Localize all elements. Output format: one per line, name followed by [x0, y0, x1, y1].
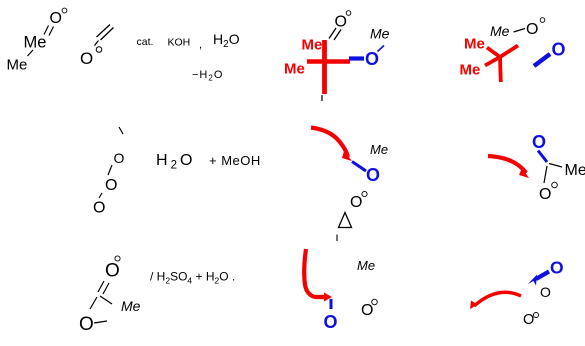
red bond horizontal	[307, 59, 350, 64]
wire bond left	[90, 297, 97, 309]
tick below	[336, 235, 338, 242]
svg-text:,: ,	[199, 39, 202, 51]
red bond Me2 to C	[485, 57, 500, 66]
charge circle	[96, 47, 102, 53]
charge circle on O	[62, 8, 67, 13]
wire bond Me-Me	[28, 50, 34, 56]
svg-text:O: O	[552, 40, 566, 60]
svg-text:O: O	[79, 314, 94, 335]
svg-text:Me: Me	[284, 61, 305, 78]
svg-text:Me: Me	[464, 36, 485, 53]
svg-text:O: O	[350, 194, 362, 211]
blue bond thin to Me	[378, 46, 385, 52]
svg-text:O: O	[365, 49, 379, 69]
black wire top	[321, 95, 323, 101]
wire bond right	[94, 321, 107, 323]
svg-text:O: O	[80, 49, 93, 68]
svg-text:O: O	[540, 284, 551, 300]
svg-text:Me: Me	[565, 162, 585, 179]
blue bond down	[538, 151, 547, 163]
red bond C up right	[500, 46, 518, 58]
wire bond to O	[544, 166, 547, 183]
svg-text:Me: Me	[302, 37, 323, 54]
svg-text:Me: Me	[357, 258, 375, 273]
svg-text:O: O	[105, 177, 117, 194]
red bond Me to C	[487, 48, 500, 58]
wire bond	[99, 193, 102, 198]
svg-text:O: O	[366, 165, 380, 185]
svg-text:KOH: KOH	[168, 37, 191, 49]
svg-text:cat.: cat.	[137, 36, 154, 48]
red arrowhead left	[470, 301, 478, 310]
svg-text:O: O	[114, 150, 125, 166]
svg-text:O: O	[335, 14, 347, 31]
double bond C=O	[44, 26, 54, 36]
double bond O to C	[329, 28, 341, 40]
red curved arrow elbow	[311, 128, 348, 158]
wire bond	[108, 165, 112, 175]
svg-text:O: O	[526, 21, 538, 38]
triangle vertex glyph	[339, 213, 352, 228]
red arrowhead	[324, 293, 332, 302]
svg-text:/ H2SO4 + H2O .: / H2SO4 + H2O .	[150, 270, 235, 286]
charge circle	[372, 299, 378, 305]
svg-text:O: O	[361, 302, 373, 319]
red arrowhead	[342, 151, 352, 161]
svg-text:−H2O: −H2O	[192, 69, 223, 83]
svg-text:O: O	[93, 200, 105, 217]
red arc arrow	[474, 292, 521, 306]
blue bond thick	[349, 56, 364, 60]
wire bond Me to O	[514, 29, 526, 33]
blue arrow shaft	[536, 272, 549, 280]
charge circle	[540, 18, 545, 23]
blue bond	[330, 299, 333, 309]
svg-text:O: O	[539, 186, 551, 203]
svg-text:O: O	[105, 261, 120, 282]
wire bond	[100, 296, 112, 304]
blue stealth arrowhead	[528, 275, 537, 286]
charge circle	[362, 191, 367, 196]
red bond C down	[498, 57, 503, 82]
svg-text:O: O	[523, 312, 534, 328]
red arrowhead	[519, 168, 529, 178]
svg-text:Me: Me	[370, 26, 390, 42]
svg-text:O: O	[324, 312, 338, 332]
red hook arrow	[304, 249, 324, 297]
svg-text:Me: Me	[490, 23, 510, 39]
svg-text:Me: Me	[24, 33, 47, 51]
svg-text:O: O	[50, 10, 62, 27]
red curved arrow elbow	[488, 156, 526, 173]
tick bond	[119, 127, 123, 134]
svg-text:Me: Me	[7, 57, 28, 74]
red bond vertical	[322, 40, 327, 94]
charge circle	[115, 256, 120, 261]
double bond	[98, 281, 109, 294]
svg-text:O: O	[532, 132, 546, 152]
charge circle	[534, 313, 539, 318]
wire bond to Me	[549, 164, 562, 168]
blue wedge arrow	[534, 54, 550, 66]
charge circle	[552, 182, 558, 188]
double bond C=C enolate	[95, 25, 114, 46]
svg-text:O: O	[550, 258, 564, 278]
svg-text:Me: Me	[370, 142, 388, 157]
charge circle	[346, 11, 351, 16]
svg-text:Me: Me	[460, 62, 481, 79]
svg-text:Me: Me	[121, 298, 141, 314]
blue bond	[352, 162, 366, 172]
svg-text:+ MeOH: + MeOH	[209, 153, 261, 168]
